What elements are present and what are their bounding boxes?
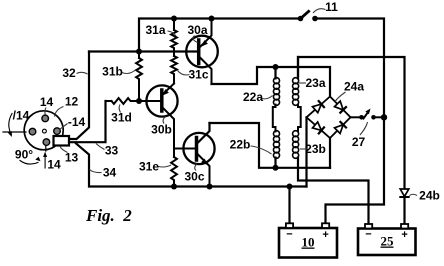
node dot battery 10 minus on rail <box>287 184 293 190</box>
bridge rectifier 24a frame <box>307 97 351 139</box>
svg-text:90°: 90° <box>15 148 33 162</box>
electrode 14 bottom <box>43 139 50 146</box>
angle arc upper <box>9 114 12 135</box>
svg-text:34: 34 <box>103 166 117 180</box>
transformer winding 23b <box>293 131 299 159</box>
transistor 30a <box>186 19 218 85</box>
wire secondary 23a top to rectifier 24b <box>298 57 405 189</box>
transformer winding 22a <box>273 67 279 105</box>
node dot 31b top junction <box>136 49 142 55</box>
leader 34 <box>90 170 102 173</box>
angle arc upper arrowhead <box>8 131 12 137</box>
svg-text:30b: 30b <box>151 123 172 137</box>
leader 11 <box>313 9 326 13</box>
wire 23a to 23b bracket <box>298 105 301 132</box>
electrode 14 right <box>54 128 61 135</box>
wire bridge left lead <box>305 117 307 186</box>
leader arrow to bottom electrode 14 <box>43 152 47 169</box>
wire 30a base line <box>89 50 197 52</box>
switch 11 blade <box>303 11 309 16</box>
left tick of 90 degree marker <box>3 131 26 133</box>
node dot 22a top <box>273 64 279 70</box>
battery 10 <box>279 223 337 257</box>
connector 13 body <box>54 136 70 146</box>
bridge diode upper-right <box>335 101 347 113</box>
wire top rail <box>139 19 301 53</box>
angle arc lower arrowhead <box>35 157 40 162</box>
wire 32 <box>69 52 89 140</box>
leader 31c <box>178 71 190 76</box>
leader 12 <box>55 107 64 117</box>
leader 23b <box>300 148 307 150</box>
wire 30c base <box>174 148 197 150</box>
leader 31b <box>122 70 136 74</box>
wire 30b base <box>139 100 162 102</box>
leader 22a <box>262 96 273 99</box>
resistor 31b <box>136 52 142 102</box>
svg-text:23a: 23a <box>305 76 325 90</box>
wire switch 11 to right drop <box>315 19 384 118</box>
svg-text:12: 12 <box>65 95 79 109</box>
wire 33 lower pin to resistor 31d <box>69 101 106 142</box>
leader 13 <box>60 147 68 153</box>
bridge diode lower-left <box>313 122 325 133</box>
leader 24a <box>335 92 346 102</box>
leader 31a <box>168 31 177 36</box>
node dot 30c emitter on rail <box>207 184 213 190</box>
svg-text:24a: 24a <box>344 80 364 94</box>
resistor 31c <box>171 56 177 84</box>
svg-text:25: 25 <box>381 234 395 249</box>
svg-text:−: − <box>365 229 371 241</box>
node dot 22b bottom <box>273 165 279 171</box>
wire 30c collector to 22b bottom and bridge bottom <box>210 123 331 168</box>
bridge diode lower-right <box>335 122 347 133</box>
wire diode 24b to battery 25 plus <box>403 197 405 224</box>
svg-text:22a: 22a <box>243 90 263 104</box>
wire 22a to 22b bracket <box>273 105 276 132</box>
switch 27 left contact <box>359 115 364 120</box>
svg-text:32: 32 <box>62 66 76 80</box>
svg-text:/14: /14 <box>13 109 30 123</box>
resistor 31a <box>171 19 177 57</box>
svg-text:14: 14 <box>47 158 61 172</box>
bridge diode upper-left <box>313 101 325 113</box>
node dot 31e bottom on rail <box>171 184 177 190</box>
leader 22b <box>251 146 272 154</box>
leader 30a <box>193 36 198 43</box>
electrode 14 left <box>29 128 36 135</box>
svg-text:−: − <box>286 229 292 241</box>
leader 31d <box>119 105 120 113</box>
lamp tube 12 envelope <box>24 111 63 150</box>
svg-text:-14: -14 <box>68 115 86 129</box>
node dot junction switch 27 output <box>381 114 387 120</box>
leader 23a <box>299 82 306 84</box>
leader 14 top <box>45 108 46 115</box>
svg-text:Fig. 2: Fig. 2 <box>85 206 132 225</box>
leader 31e <box>159 165 172 167</box>
svg-text:31d: 31d <box>111 111 132 125</box>
svg-text:24b: 24b <box>419 189 440 203</box>
wire switch 27 to junction <box>374 116 385 118</box>
leader 30c <box>195 164 197 171</box>
leader 14 right <box>60 124 68 130</box>
switch 27 blade with arrow <box>364 109 371 119</box>
svg-text:30a: 30a <box>187 23 207 37</box>
leader 33 <box>96 144 105 150</box>
switch 11 right contact <box>312 16 318 22</box>
svg-text:13: 13 <box>65 151 79 165</box>
svg-text:30c: 30c <box>184 170 204 184</box>
leader 30b <box>163 117 165 124</box>
node dot 30b base junction <box>136 98 142 104</box>
svg-text:31c: 31c <box>188 68 208 82</box>
wire bridge bottom lead <box>329 138 331 168</box>
battery 25 <box>358 224 416 255</box>
resistor 31e <box>171 157 177 187</box>
leader 24b <box>410 194 418 195</box>
bottom rail wire 34 <box>76 143 307 186</box>
svg-text:31a: 31a <box>145 23 165 37</box>
angle arc lower <box>20 161 38 165</box>
electrode 14 top <box>42 115 49 122</box>
svg-text:33: 33 <box>105 144 119 158</box>
diode 24b <box>400 189 409 197</box>
leader 27 <box>360 122 368 135</box>
svg-text:22b: 22b <box>230 138 251 152</box>
svg-text:10: 10 <box>302 235 315 250</box>
switch 27 wire from bridge <box>351 116 362 118</box>
transformer winding 22b <box>273 131 279 168</box>
resistor 31d <box>106 98 140 104</box>
transistor 30b <box>146 84 177 158</box>
svg-text:23b: 23b <box>305 142 326 156</box>
leader 32 <box>77 72 88 74</box>
switch 27 right contact <box>371 115 376 120</box>
wire 30a collector to transformer 22a top and bridge top <box>212 67 331 97</box>
node dot top of resistor 31a <box>171 16 177 22</box>
svg-text:31e: 31e <box>139 160 159 174</box>
lamp center hole <box>43 129 47 133</box>
svg-text:14: 14 <box>40 95 54 109</box>
bottom tick of 90 degree marker <box>45 146 47 151</box>
node dot 30a emitter on top rail <box>209 16 215 22</box>
transistor 30c <box>183 123 214 187</box>
switch 11 left contact <box>298 16 304 22</box>
transformer winding 23a <box>293 57 299 105</box>
wire rail to battery 10 minus <box>288 187 290 224</box>
svg-text:11: 11 <box>325 0 338 14</box>
svg-text:31b: 31b <box>102 65 123 79</box>
wire 23b bottom to battery 25 minus <box>298 158 369 224</box>
svg-text:+: + <box>322 229 328 241</box>
svg-text:+: + <box>401 229 407 241</box>
wire junction down to battery 10 plus <box>326 117 385 223</box>
svg-text:27: 27 <box>352 135 366 149</box>
